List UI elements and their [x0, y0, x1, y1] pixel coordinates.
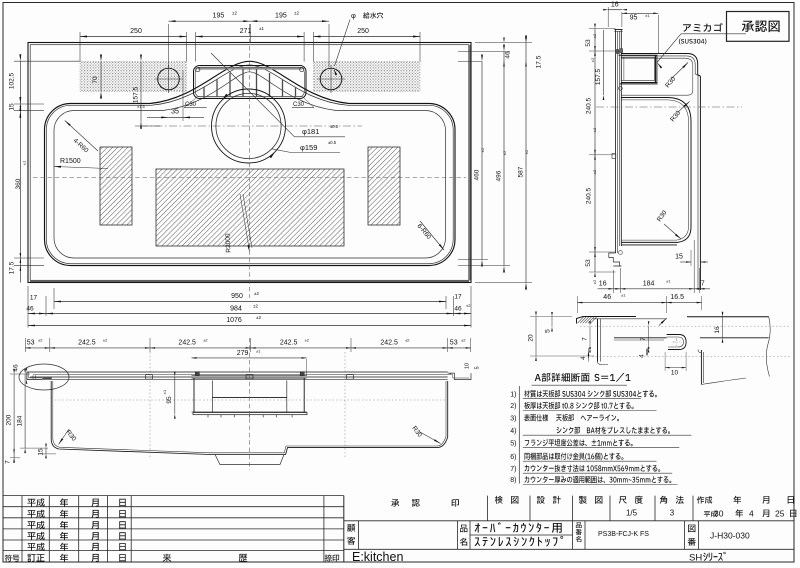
svg-text:±2: ±2 — [38, 338, 43, 343]
drain circle inner φ159 — [216, 93, 281, 158]
svg-text:5: 5 — [475, 366, 481, 369]
svg-text:±2: ±2 — [256, 315, 261, 320]
svg-text:R1500: R1500 — [60, 158, 81, 165]
dim 20 — [535, 317, 537, 357]
section A left wall + bottom — [51, 381, 448, 455]
label アミカゴ — [683, 23, 723, 32]
svg-text:±2: ±2 — [232, 11, 237, 16]
dim 16 top — [608, 9, 622, 11]
tray ribs — [203, 87, 205, 96]
dotted ref line across section — [55, 399, 445, 401]
side section bottom flange — [609, 253, 622, 266]
svg-text:C30: C30 — [293, 102, 305, 108]
svg-text:±2: ±2 — [592, 279, 597, 284]
svg-text:250: 250 — [130, 28, 142, 35]
dim 15 section — [680, 261, 691, 263]
dotted ext verticals — [149, 352, 151, 458]
svg-text:15: 15 — [37, 448, 44, 456]
svg-text:±2: ±2 — [502, 150, 507, 155]
dim 157.5 — [140, 62, 142, 122]
svg-text:200: 200 — [6, 414, 13, 425]
detail dim row 46/16.5 — [577, 302, 701, 304]
clips on surface — [146, 375, 153, 380]
svg-text:360: 360 — [15, 178, 22, 189]
svg-text:15: 15 — [675, 254, 683, 261]
centerline basket — [249, 338, 251, 470]
svg-text:φ: φ — [351, 11, 356, 20]
svg-text:PS3B-FCJ-K FS: PS3B-FCJ-K FS — [598, 531, 649, 538]
svg-text:16: 16 — [611, 2, 619, 9]
svg-text:53: 53 — [585, 259, 592, 267]
svg-text:7: 7 — [5, 460, 12, 464]
dim 7/4 middle — [648, 326, 650, 348]
centerline vertical — [249, 24, 251, 298]
svg-text:242.5: 242.5 — [178, 339, 196, 346]
J-hook — [667, 335, 687, 350]
left chain dims 102.5/15/360/17.5 — [19, 61, 21, 282]
svg-text:±2: ±2 — [592, 169, 597, 174]
svg-text:2): 2) — [510, 403, 516, 410]
plan view counter outline — [28, 43, 471, 283]
leader φ181 φ159 — [211, 53, 295, 137]
svg-text:φ181: φ181 — [302, 127, 319, 136]
zone2 header texts — [391, 499, 399, 506]
right chain dims 460/496/587 — [481, 62, 483, 260]
svg-text:184: 184 — [643, 280, 655, 287]
svg-text:95: 95 — [166, 396, 173, 404]
svg-text:242.5: 242.5 — [78, 339, 96, 346]
wall clip notch — [612, 154, 616, 159]
basket hooks on surface — [195, 372, 199, 376]
svg-text:53: 53 — [585, 39, 592, 47]
section A top dim row — [25, 347, 470, 349]
svg-text:10: 10 — [671, 370, 679, 377]
svg-text:1076: 1076 — [226, 317, 242, 324]
weld marks — [619, 86, 623, 90]
svg-text:279: 279 — [237, 350, 249, 357]
svg-text:±2: ±2 — [524, 149, 529, 154]
tray peg circles — [196, 68, 200, 72]
title block zone1 — [3, 495, 344, 497]
basket teeth — [207, 415, 209, 418]
svg-text:±0.5: ±0.5 — [328, 140, 337, 145]
svg-text:±1: ±1 — [645, 13, 650, 18]
svg-text:7: 7 — [582, 337, 589, 341]
basin wall bottom contour — [54, 72, 446, 258]
dim 70 hatch strip — [100, 62, 102, 92]
svg-text:102.5: 102.5 — [9, 72, 16, 89]
hatched rect left — [100, 147, 132, 225]
hem verticals — [700, 350, 702, 385]
svg-text:1/5: 1/5 — [626, 509, 638, 518]
side section bowl outer edge — [621, 54, 700, 291]
left end hook — [27, 372, 42, 379]
svg-text:3): 3) — [510, 415, 516, 422]
svg-text:±2: ±2 — [592, 127, 597, 132]
bottom dim rows 950/984/1076 — [54, 301, 446, 303]
dims left of section A — [13, 374, 15, 458]
svg-text:950: 950 — [231, 293, 243, 300]
svg-text:195: 195 — [275, 13, 287, 20]
svg-text:±1: ±1 — [621, 293, 626, 298]
wavy break line — [766, 317, 770, 377]
centerline drain horizontal — [140, 125, 362, 127]
drain circle outer φ181 — [212, 89, 286, 163]
svg-text:±0.5: ±0.5 — [330, 124, 339, 129]
svg-text:242.5: 242.5 — [280, 339, 298, 346]
svg-text:±2: ±2 — [103, 337, 108, 342]
right sheet lines — [687, 316, 769, 318]
dim 95 basket — [174, 377, 176, 414]
svg-text:35: 35 — [171, 109, 179, 116]
svg-text:7: 7 — [701, 280, 705, 287]
svg-text:6): 6) — [510, 454, 516, 461]
svg-text:157.5: 157.5 — [133, 86, 140, 103]
svg-text:240.5: 240.5 — [586, 97, 593, 114]
dim 95 — [622, 12, 659, 14]
hatched rect right — [368, 147, 400, 225]
svg-text:±1.5: ±1.5 — [137, 104, 146, 109]
hatch strip right (dotted) — [314, 62, 421, 92]
svg-text:4: 4 — [580, 356, 587, 360]
title block zone2 — [343, 496, 345, 562]
svg-text:±2: ±2 — [253, 304, 258, 309]
svg-text:φ159: φ159 — [300, 143, 317, 152]
break arcs — [701, 378, 746, 385]
svg-text:30: 30 — [714, 509, 724, 519]
svg-text:4): 4) — [510, 428, 516, 435]
svg-text:R2000: R2000 — [225, 233, 233, 253]
svg-text:±2: ±2 — [405, 337, 410, 342]
svg-text:184: 184 — [17, 415, 24, 426]
basin flange outline inner — [46, 65, 453, 264]
svg-text:E:kitchen: E:kitchen — [352, 550, 403, 564]
svg-text:±1: ±1 — [22, 160, 27, 165]
svg-text:53: 53 — [450, 339, 458, 346]
svg-text:195: 195 — [213, 13, 225, 20]
svg-text:±1: ±1 — [256, 349, 261, 354]
bottom dims section — [598, 288, 710, 290]
dim 5 — [551, 317, 553, 328]
svg-text:3: 3 — [670, 509, 675, 518]
svg-text:±2: ±2 — [590, 57, 595, 62]
svg-text:46: 46 — [505, 51, 512, 59]
basket section — [192, 377, 307, 379]
svg-text:46: 46 — [603, 294, 611, 301]
svg-text:20: 20 — [528, 334, 535, 342]
drain bump — [215, 455, 284, 465]
faucet hole right — [320, 68, 342, 90]
fold hatch strokes — [578, 317, 584, 323]
faucet hole left — [158, 68, 180, 90]
section centerline — [596, 106, 742, 108]
svg-text:242.5: 242.5 — [380, 339, 398, 346]
dim 250/271/250 row — [80, 36, 187, 38]
corner radius labels — [65, 121, 98, 152]
drainer tray アミカゴ plan — [194, 66, 307, 99]
side section lower tier — [621, 98, 691, 243]
svg-text:984: 984 — [230, 306, 242, 313]
svg-text:53: 53 — [27, 339, 35, 346]
hatch strip left (dotted) — [80, 62, 187, 92]
title A部詳細断面 — [535, 373, 590, 382]
hatched rect center — [156, 169, 344, 246]
svg-text:7: 7 — [640, 337, 647, 341]
detail ellipse A — [19, 364, 69, 390]
centerline horizontal mid — [33, 177, 466, 179]
dim 10 — [665, 367, 686, 369]
svg-text:496: 496 — [496, 170, 503, 181]
svg-text:1): 1) — [510, 391, 516, 398]
svg-text:±2: ±2 — [203, 337, 208, 342]
svg-text:7): 7) — [510, 466, 516, 473]
notes list — [518, 386, 520, 484]
svg-text:±2: ±2 — [294, 11, 299, 16]
svg-text:15: 15 — [9, 103, 16, 111]
svg-text:17: 17 — [454, 294, 462, 301]
svg-text:±1: ±1 — [666, 279, 671, 284]
svg-text:460: 460 — [474, 169, 481, 180]
dim 35 — [168, 116, 183, 118]
svg-text:16: 16 — [599, 280, 607, 287]
svg-text:4: 4 — [639, 354, 646, 358]
left chain dims section — [594, 29, 596, 272]
dim 279 — [192, 357, 307, 359]
svg-text:±2: ±2 — [592, 33, 597, 38]
svg-text:±2: ±2 — [305, 337, 310, 342]
svg-text:70: 70 — [92, 76, 99, 84]
svg-text:250: 250 — [357, 28, 369, 35]
svg-text:157.5: 157.5 — [595, 68, 602, 85]
dim 16 right — [722, 317, 724, 338]
svg-text:SH: SH — [689, 553, 702, 564]
svg-text:C30: C30 — [185, 102, 197, 108]
svg-text:±2: ±2 — [254, 291, 259, 296]
zone2 row3 texts — [347, 524, 355, 532]
svg-text:J-H30-030: J-H30-030 — [710, 531, 750, 541]
svg-text:8): 8) — [510, 477, 516, 484]
dim 195/195 row — [169, 20, 330, 22]
svg-text:±2: ±2 — [461, 338, 466, 343]
svg-text:±2: ±2 — [480, 147, 485, 152]
svg-text:±2: ±2 — [466, 303, 471, 308]
arrow mark — [659, 318, 667, 325]
svg-text:±1: ±1 — [259, 26, 264, 31]
detail middle: hem sheet — [614, 337, 667, 339]
svg-text:5: 5 — [545, 329, 552, 333]
svg-text:±1: ±1 — [162, 389, 167, 394]
side section basket — [619, 55, 657, 82]
svg-text:271: 271 — [240, 28, 252, 35]
basin flange outline outer — [45, 61, 456, 265]
svg-text:25: 25 — [775, 509, 785, 519]
svg-text:5): 5) — [510, 440, 516, 447]
right end hook — [448, 373, 471, 380]
basket hook blocks — [616, 50, 619, 54]
svg-text:46: 46 — [454, 305, 462, 312]
approval box 承認図 — [727, 12, 790, 42]
svg-text:46: 46 — [26, 305, 34, 312]
dim 7/4 left — [589, 326, 591, 348]
svg-text:240.5: 240.5 — [586, 187, 593, 204]
detail left profile: front edge fold — [577, 317, 637, 324]
side section upper tier inner — [622, 58, 693, 95]
svg-text:4: 4 — [749, 509, 754, 519]
svg-text:95: 95 — [630, 15, 638, 22]
detail dotted refs — [580, 325, 790, 327]
svg-text:17.5: 17.5 — [536, 55, 543, 68]
svg-text:16.5: 16.5 — [670, 294, 684, 301]
svg-text:17: 17 — [30, 295, 38, 302]
svg-text:17.5: 17.5 — [9, 261, 16, 274]
side section wall verticals — [615, 30, 617, 254]
svg-text:16: 16 — [714, 326, 721, 334]
section A top surface lines — [27, 371, 448, 373]
svg-text:587: 587 — [518, 166, 525, 177]
small dims 17.5 / 46 top right — [503, 62, 505, 67]
svg-text:10: 10 — [465, 363, 471, 369]
